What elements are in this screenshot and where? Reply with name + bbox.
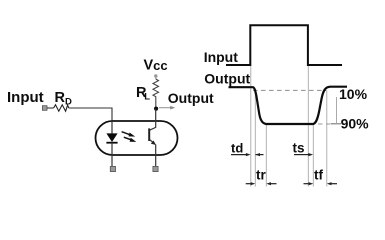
svg-text:10%: 10% [339,86,368,102]
witness line v4: input fall [307,65,309,187]
resistor RL (vertical zigzag) [153,79,159,107]
svg-text:Output: Output [168,90,214,106]
witness line v1: input rise [250,65,252,187]
svg-text:D: D [65,97,72,108]
witness line v2: output 10% fall [254,91,256,187]
input waveform [226,25,342,65]
svg-text:Input: Input [7,89,44,106]
LED cathode wire [111,143,113,167]
pin pad 2 (emitter) [153,166,158,171]
svg-text:Vcc: Vcc [144,58,168,74]
resistor RD [54,105,69,111]
svg-text:td: td [231,140,243,155]
svg-text:90%: 90% [341,116,370,132]
wire junction down to collector [155,109,157,121]
svg-text:Input: Input [204,49,239,65]
Vcc terminal dot [154,74,157,77]
svg-text:ts: ts [293,140,305,155]
wire input to resistor [47,107,54,109]
LED D1 anode wire [111,121,113,134]
witness line v3: output 90% fall [265,124,267,187]
wire Vcc to RL [155,78,157,80]
90% dashed level line [270,123,330,125]
90% tick [331,123,342,125]
phototransistor Q1 base bar [148,128,150,141]
output waveform [229,87,348,124]
svg-text:L: L [144,92,150,103]
LED D1 (triangle + cathode bar) [106,133,117,142]
svg-text:tr: tr [256,168,266,183]
pin pad 1 (LED cathode) [110,166,115,171]
input terminal pad [42,106,47,111]
10% dashed level line [253,89,326,91]
light arrow 2 [124,137,132,140]
phototransistor Q1 emitter with arrow [150,140,155,144]
connector 10%-90% [336,97,338,124]
output leader arrow [159,107,171,109]
optocoupler body U1 [96,121,178,155]
witness line v5: output 90% rise [312,124,314,187]
svg-text:tf: tf [314,168,323,183]
svg-text:R: R [55,90,66,106]
svg-text:Output: Output [204,71,250,87]
node: output junction [154,107,158,111]
witness line v6: output 10% rise [326,91,328,187]
phototransistor Q1 collector [150,121,156,130]
light arrow 1 [122,132,131,135]
wire resistor to LED anode, corner at x=112 [69,108,112,122]
